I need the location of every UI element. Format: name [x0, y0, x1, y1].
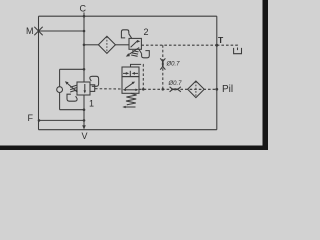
switching valve flow path with arrows [124, 89, 137, 91]
wire F port line [39, 119, 84, 121]
node T junction [215, 44, 218, 47]
node bypass top [83, 68, 86, 71]
svg-text:T: T [218, 35, 224, 45]
wire dashed pilot to switching valve [139, 64, 144, 89]
valve 2 pilot curl top-left [121, 30, 128, 38]
valve 1 spring [70, 85, 76, 87]
valve 1 adjustment arrow [67, 83, 78, 92]
wire outer frame bottom [39, 129, 217, 131]
switching valve top position box [122, 67, 139, 77]
wire bypass left vertical lower [59, 93, 61, 110]
switching valve spring [126, 93, 137, 105]
wire outer frame top [39, 15, 217, 17]
svg-text:2: 2 [144, 27, 149, 37]
wire bypass left vertical upper [59, 69, 61, 86]
wire outer frame right (T line) [216, 16, 218, 130]
dark band bottom edge [0, 146, 268, 151]
orifice D2 (Ø0.7) [170, 87, 181, 90]
switching valve bottom position box [122, 77, 139, 94]
orifice ball circle [57, 87, 63, 93]
orifice D1 (Ø0.7) [160, 58, 163, 69]
svg-text:M: M [26, 26, 34, 36]
switching valve throttle diagonal [125, 83, 134, 89]
switching valve closed position symbol [129, 71, 131, 76]
node bypass bottom [83, 108, 86, 111]
filter F2 diamond [188, 81, 205, 98]
node F left [38, 119, 41, 122]
wire C to V main vertical [83, 13, 85, 83]
wire valve 1 bypass top [60, 68, 84, 70]
wire dashed T to plug [217, 45, 238, 50]
plugged port cup [234, 48, 242, 54]
wire dashed vertical orifice branch [162, 45, 164, 89]
node pilot branch [142, 88, 145, 91]
valve 2 pilot curl bottom-right [142, 51, 150, 58]
valve 2 adjustment arrow [128, 48, 139, 56]
node C top line [83, 15, 86, 18]
node M branch [83, 30, 86, 33]
test point M (X symbol) [34, 27, 42, 35]
svg-text:V: V [82, 131, 88, 141]
valve 2 body [129, 38, 141, 49]
valve 1 port plate right [90, 85, 95, 92]
svg-text:F: F [28, 113, 34, 123]
valve 1 pilot curl top-right [90, 76, 99, 86]
dark band right edge [263, 0, 269, 150]
valve 1 pilot curl bottom-left [67, 94, 77, 101]
node orifice branch [162, 88, 165, 91]
wire filter F1 to valve 2 [115, 44, 129, 46]
V port arrow [82, 125, 86, 129]
valve 2 spring [132, 51, 138, 52]
node F right [83, 119, 86, 122]
svg-text:Pil: Pil [222, 84, 233, 95]
wire dashed valve 1 to switching valve [95, 88, 122, 90]
valve 1 flow arrow [84, 84, 86, 92]
switching valve spring seat arrow [125, 106, 136, 108]
svg-text:Ø0.7: Ø0.7 [168, 81, 183, 87]
svg-text:C: C [80, 4, 87, 14]
wire dashed valve 2 to T [141, 44, 216, 46]
svg-text:1: 1 [89, 99, 94, 109]
wire below valve 1 to bottom [83, 95, 85, 127]
valve 2 flow arrow [131, 41, 139, 47]
switching valve pilot stub [131, 64, 139, 67]
filter F1 diamond [98, 36, 115, 53]
node filter branch [83, 44, 86, 47]
wire dashed switching valve to Pil junction [139, 88, 217, 90]
valve 1 body [77, 82, 90, 95]
wire bypass bottom [60, 109, 84, 111]
wire M to C line [39, 30, 85, 32]
node Pil junction [215, 88, 218, 91]
svg-text:Ø0.7: Ø0.7 [166, 62, 181, 68]
wire C line to filter F1 [84, 44, 98, 46]
wire outer frame left (M line) [38, 16, 40, 130]
